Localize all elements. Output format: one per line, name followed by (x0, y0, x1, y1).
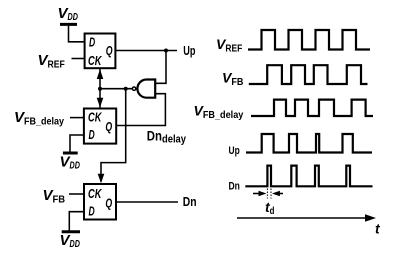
svg-text:Dn: Dn (183, 195, 197, 209)
VDD supply symbol (bottom, U3 D input) (62, 212, 84, 232)
svg-text:D: D (89, 205, 95, 219)
node junction dot branch down (124, 87, 128, 91)
wire Q1 to Up (115, 50, 177, 52)
node VREF input wire (72, 58, 85, 60)
waveform VFB_delay (251, 100, 373, 116)
td marker right arrow (274, 193, 283, 195)
svg-text:CK: CK (88, 187, 102, 201)
svg-text:Dn: Dn (229, 180, 240, 192)
svg-text:CK: CK (88, 54, 102, 68)
svg-text:CK: CK (88, 111, 102, 125)
svg-text:Q: Q (106, 44, 113, 58)
waveform Up (246, 134, 372, 153)
time axis (237, 217, 368, 219)
wire U2 Q to NAND bottom input (116, 94, 165, 126)
node junction dot on reset line (98, 87, 102, 91)
td marker dotted lines (266, 189, 268, 199)
node VFB input wire (69, 193, 84, 195)
svg-text:Q: Q (105, 120, 112, 134)
wire Up dot down to NAND top input (155, 51, 166, 84)
wire NAND output to reset line (100, 88, 132, 90)
waveform Dn (245, 166, 372, 187)
waveform VREF (248, 30, 370, 50)
td marker left arrow (253, 193, 264, 195)
svg-text:Q: Q (105, 197, 112, 211)
wire U3 Q to Dn (116, 201, 178, 203)
svg-text:D: D (89, 36, 95, 50)
flip-flop U2 (middle DFF: CK=VFB_delay, D=VDD, Q=Dn_delay) (84, 109, 116, 144)
node VFB_delay input wire (70, 117, 84, 119)
svg-text:Up: Up (183, 44, 195, 58)
node Up junction dot (164, 49, 168, 53)
VDD supply symbol (top, for U1 D input) (60, 24, 85, 41)
VDD supply symbol (middle, U2 D input) (63, 135, 84, 153)
waveform VFB (249, 65, 368, 84)
svg-text:D: D (89, 128, 95, 142)
wire reset vertical between U1 and U2 with arrows (99, 68, 101, 108)
flip-flop U3 (bottom DFF: CK=VFB, D=VDD, Q=Dn) (84, 184, 116, 220)
flip-flop U1 (top DFF: D=VDD, CK=VREF, Q=Up) (85, 34, 116, 69)
svg-text:Up: Up (229, 145, 240, 157)
NAND gate U4 (mirrored, output bubble on left) (137, 80, 155, 98)
wire NAND output branch down to U3 reset, with arrow (101, 89, 126, 182)
